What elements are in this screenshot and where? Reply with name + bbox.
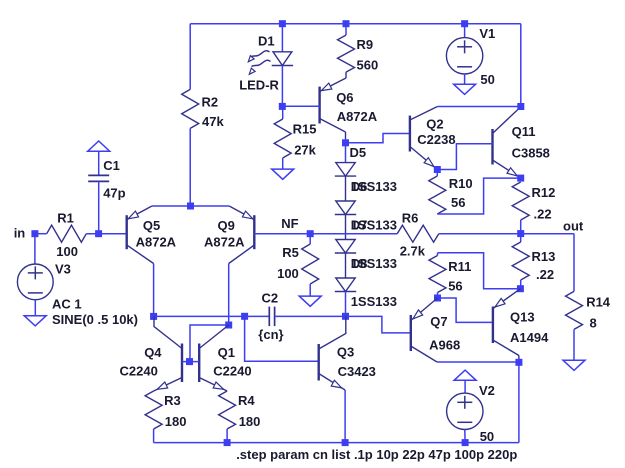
svg-text:LED-R: LED-R <box>239 77 279 92</box>
node junction diode chain bottom / C2 / Q3 collector <box>342 313 349 320</box>
svg-text:C3858: C3858 <box>512 146 550 161</box>
svg-text:.22: .22 <box>534 206 552 221</box>
ground below R5 <box>299 296 321 306</box>
wire top rail left drop to R2 <box>189 24 191 90</box>
wire out to R14 <box>573 234 575 292</box>
node junction Q2 emitter / R10 <box>434 166 441 173</box>
wire R10 bottom to Q11 emitter <box>437 178 520 214</box>
svg-text:C3423: C3423 <box>338 364 376 379</box>
svg-text:56: 56 <box>451 195 465 210</box>
svg-text:56: 56 <box>448 278 462 293</box>
diode D8 <box>336 278 355 292</box>
voltage source V3 <box>17 264 53 300</box>
node junction top rail / R9 <box>343 20 350 27</box>
LED D1 <box>281 24 283 52</box>
wire R11 top to R13 bottom <box>438 253 521 289</box>
port in <box>31 230 38 237</box>
node junction D5 anode / Q6 collector <box>342 139 349 146</box>
svg-text:D6: D6 <box>351 179 368 194</box>
svg-text:AC 1: AC 1 <box>52 296 82 311</box>
node junction Q11 emitter / R12 <box>517 175 524 182</box>
resistor R5 <box>309 234 311 244</box>
svg-text:47p: 47p <box>103 186 125 201</box>
svg-text:R9: R9 <box>357 37 374 52</box>
svg-text:.22: .22 <box>536 267 554 282</box>
wire top rail right drop to Q2/Q11 collectors <box>520 24 522 107</box>
svg-text:R2: R2 <box>202 94 219 109</box>
svg-text:C1: C1 <box>103 158 120 173</box>
voltage source V2 <box>464 380 466 393</box>
voltage source V1 <box>464 24 466 38</box>
wire Q7 collector to bottom collectors node <box>437 361 519 363</box>
wire Q3 emitter to bottom rail <box>344 390 346 443</box>
svg-text:NF: NF <box>281 216 298 231</box>
wire Q4 Q1 bases <box>182 361 199 363</box>
wire Q5 collector down <box>153 264 155 317</box>
wire Q9 collector node to mirror bases <box>190 325 229 362</box>
svg-text:Q1: Q1 <box>218 345 235 360</box>
wire Q13 base from R11 node <box>438 298 493 322</box>
svg-text:R14: R14 <box>586 294 611 309</box>
LED D1 light arrow upper <box>251 51 270 57</box>
transistor Q2 NPN <box>409 116 411 152</box>
svg-text:180: 180 <box>239 414 261 429</box>
ground above V2 <box>454 370 476 380</box>
svg-text:V3: V3 <box>55 261 71 276</box>
wire chain bottom node to Q7 base <box>346 316 411 333</box>
svg-text:R12: R12 <box>532 185 556 200</box>
svg-text:R11: R11 <box>448 259 471 274</box>
svg-text:Q4: Q4 <box>144 345 162 360</box>
svg-text:C2240: C2240 <box>213 363 251 378</box>
svg-text:C2240: C2240 <box>120 363 158 378</box>
resistor R14 <box>566 291 583 329</box>
resistor R12 <box>512 182 529 220</box>
node junction NF / R5 <box>307 230 314 237</box>
wire collectors node to bottom rail <box>518 362 520 442</box>
node junction out / R12 / R13 <box>517 230 524 237</box>
node junction mid rail / Q3 base drop <box>241 313 248 320</box>
svg-text:D5: D5 <box>350 145 367 160</box>
svg-text:R5: R5 <box>282 245 299 260</box>
wire D7 to D8 <box>345 253 347 278</box>
node junction R13 bottom / Q13 emitter <box>517 285 524 292</box>
svg-text:R13: R13 <box>532 249 556 264</box>
node junction R11 bottom / Q7 emitter / Q13 base <box>434 295 441 302</box>
svg-text:R6: R6 <box>402 211 419 226</box>
svg-text:V2: V2 <box>479 383 495 398</box>
resistor R6 <box>397 225 439 242</box>
resistor R2 <box>182 89 199 128</box>
transistor Q7 PNP <box>410 315 412 351</box>
svg-text:100: 100 <box>56 244 78 259</box>
svg-text:R3: R3 <box>164 393 181 408</box>
transistor Q6 PNP <box>318 87 320 124</box>
wire D5 to D6 <box>345 176 347 201</box>
LED D1 light arrow lower <box>252 60 271 66</box>
transistor Q1 NPN <box>198 344 200 383</box>
wire C2 node down to Q3 base <box>245 316 319 361</box>
svg-text:180: 180 <box>165 414 187 429</box>
wire R1 to Q5 base <box>86 233 126 235</box>
wire NF node from Q9 base <box>254 233 310 235</box>
transistor Q11 NPN <box>491 129 493 165</box>
ground above C1 <box>88 141 110 151</box>
svg-text:Q9: Q9 <box>218 218 235 233</box>
node junction top rail / V1 <box>461 20 468 27</box>
svg-text:D1: D1 <box>258 34 275 49</box>
svg-text:27k: 27k <box>294 143 316 158</box>
wire in to V3 <box>34 234 36 264</box>
transistor Q5 PNP <box>125 215 127 249</box>
svg-text:SINE(0 .5 10k): SINE(0 .5 10k) <box>52 312 138 327</box>
svg-text:A872A: A872A <box>337 109 378 124</box>
wire NF to R6 <box>310 233 397 235</box>
wire D6 to D7 <box>345 215 347 240</box>
svg-text:Q6: Q6 <box>336 90 353 105</box>
wire emitter tail of Q5 Q9 <box>152 205 229 207</box>
svg-text:D8: D8 <box>351 256 368 271</box>
resistor R4 <box>219 391 236 429</box>
diode D5 <box>345 143 347 163</box>
svg-text:Q11: Q11 <box>512 124 536 139</box>
node junction Q7 Q13 collectors <box>515 359 522 366</box>
wire R6 to out <box>439 233 574 235</box>
svg-text:Q13: Q13 <box>510 309 535 324</box>
resistor R13 <box>520 234 522 242</box>
diode D6 <box>336 201 355 215</box>
svg-text:C2238: C2238 <box>417 132 455 147</box>
svg-text:8: 8 <box>590 316 597 331</box>
resistor R10 <box>436 170 438 177</box>
transistor Q4 NPN mirrored <box>181 344 183 383</box>
svg-text:Q5: Q5 <box>143 218 160 233</box>
wire Q2 emitter to Q11 base <box>437 144 492 170</box>
node junction R1 / C1 / Q5 base <box>95 230 102 237</box>
resistor R15 <box>282 106 284 119</box>
svg-text:R15: R15 <box>293 122 317 137</box>
node junction D1 cathode / R15 / Q6 base <box>279 103 286 110</box>
svg-text:A872A: A872A <box>136 234 177 249</box>
wire Q6 base <box>282 105 319 107</box>
resistor R9 <box>345 24 347 35</box>
ground below V1 <box>454 84 476 94</box>
wire bottom V- rail <box>154 442 519 444</box>
ground below R14 <box>563 360 585 370</box>
wire in to R1 <box>35 233 47 235</box>
transistor Q13 PNP <box>492 307 494 344</box>
svg-text:R10: R10 <box>449 176 473 191</box>
svg-text:Q2: Q2 <box>426 116 443 131</box>
diode D7 <box>336 240 355 254</box>
wire D8 to bottom node <box>345 292 347 317</box>
transistor Q3 NPN <box>318 344 320 381</box>
resistor R1 <box>47 225 87 242</box>
svg-text:R4: R4 <box>238 393 255 408</box>
node junction mid rail / Q5 Q4 collectors <box>150 313 157 320</box>
svg-text:V1: V1 <box>479 26 495 41</box>
svg-text:100: 100 <box>277 266 299 281</box>
resistor R3 <box>145 391 162 429</box>
wire mid rail Q5 collector to C2 <box>154 315 270 317</box>
svg-text:R1: R1 <box>57 210 74 225</box>
svg-text:C2: C2 <box>262 291 279 306</box>
svg-text:{cn}: {cn} <box>258 327 283 342</box>
wire top V+ rail <box>190 23 521 25</box>
svg-text:47k: 47k <box>202 114 224 129</box>
wire Q6 collector to Q2 base <box>346 134 410 143</box>
svg-text:50: 50 <box>480 429 494 444</box>
node junction V+ / Q2 Q11 collectors <box>517 103 524 110</box>
svg-text:2.7k: 2.7k <box>400 243 426 258</box>
svg-text:in: in <box>14 226 26 241</box>
svg-text:1SS133: 1SS133 <box>351 294 397 309</box>
node junction V2 / bottom rail <box>462 439 469 446</box>
svg-text:out: out <box>563 218 584 233</box>
capacitor C2 <box>268 307 270 327</box>
svg-text:Q7: Q7 <box>430 314 447 329</box>
capacitor C1 <box>98 151 100 175</box>
svg-text:A968: A968 <box>429 338 460 353</box>
svg-text:Q3: Q3 <box>337 345 354 360</box>
svg-text:560: 560 <box>357 58 379 73</box>
ground below V3 <box>24 316 46 326</box>
wire Q2 collector to V+ node <box>437 106 520 108</box>
svg-text:A1494: A1494 <box>510 330 549 345</box>
svg-text:D7: D7 <box>351 218 368 233</box>
node junction Q3 emitter / bottom rail <box>342 439 349 446</box>
node junction Q4 Q1 bases <box>186 358 193 365</box>
node junction Q9 / Q1 collectors <box>225 322 232 329</box>
node junction R4 / bottom rail <box>224 439 231 446</box>
node junction top rail / D1 <box>279 20 286 27</box>
node junction tail / R2 <box>187 203 194 210</box>
svg-text:.step param cn list .1p 10p 22: .step param cn list .1p 10p 22p 47p 100p… <box>236 447 517 462</box>
ground below R15 <box>272 169 294 179</box>
svg-text:50: 50 <box>480 72 494 87</box>
resistor R11 <box>437 253 439 256</box>
transistor Q9 PNP <box>253 215 255 249</box>
svg-text:A872A: A872A <box>204 234 245 249</box>
wire Q9 collector down <box>228 264 230 326</box>
